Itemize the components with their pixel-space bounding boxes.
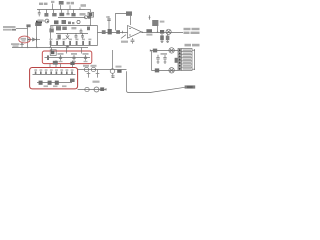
- wire x90 down: [90, 17, 92, 26]
- capacitor C15: [156, 55, 159, 63]
- capacitor Cg1: [87, 72, 91, 78]
- resistor bank R6: [50, 41, 91, 45]
- component cluster M2: [68, 22, 74, 25]
- component C6: [49, 26, 53, 32]
- opamp plus: [129, 28, 131, 30]
- transistor Q5: [91, 67, 95, 71]
- capacitor C9: [75, 33, 78, 39]
- component S1: [153, 49, 157, 53]
- transistor Q4: [84, 67, 88, 71]
- label C13: [71, 53, 77, 55]
- component D6: [87, 27, 90, 31]
- wire drop x162: [160, 34, 164, 41]
- resistor R14: [100, 87, 104, 91]
- wire stub into box1 a: [51, 48, 53, 54]
- wire stub into box1 b: [66, 48, 68, 54]
- label Q6: [116, 66, 122, 68]
- wire opamp output: [141, 32, 183, 34]
- component bank box2 bottom: [39, 81, 59, 85]
- label under C13: [72, 61, 76, 62]
- op-amp U1: [128, 26, 142, 39]
- wire bottom bus: [12, 47, 88, 49]
- wire stub into box1 c: [81, 48, 83, 54]
- label X1 side: [160, 21, 165, 23]
- wire L-run to fuse: [127, 71, 185, 92]
- component link2 dark: [70, 62, 74, 65]
- ground G3: [161, 40, 164, 42]
- label Q4: [83, 65, 89, 67]
- resistor R9b: [116, 30, 120, 34]
- wire vertical to Q6: [112, 50, 114, 69]
- highlight circle TR1 (red): [19, 36, 31, 43]
- junction dot bus3: [49, 47, 50, 48]
- wire box2 bottom rail: [37, 82, 72, 84]
- label top L3: [67, 2, 75, 5]
- resistor bank box2: [35, 71, 73, 74]
- resistor R13: [117, 70, 121, 73]
- labels box2 top: [34, 69, 73, 71]
- component U4: [54, 20, 59, 24]
- resistor R10: [146, 29, 152, 32]
- resistor R5 feedback: [126, 11, 132, 15]
- ground G1: [20, 43, 24, 47]
- wire inverting feedback diag: [121, 35, 126, 39]
- battery B1: [59, 1, 64, 10]
- tick node C: [149, 15, 151, 20]
- ground G4: [166, 40, 169, 42]
- wire feedback right leg: [130, 16, 132, 25]
- wire vertical mid1: [50, 26, 52, 48]
- wire pair1 line: [78, 69, 127, 71]
- wire lower rail mid: [51, 45, 98, 47]
- component C7: [56, 26, 67, 30]
- lamp L2: [169, 68, 174, 73]
- component U5: [62, 20, 67, 24]
- resistor R12: [47, 55, 49, 60]
- label under C12: [59, 61, 63, 62]
- wire vertical x97: [97, 26, 99, 46]
- diode D1: [32, 37, 36, 41]
- component D3: [52, 10, 56, 17]
- label output line1: [184, 28, 200, 34]
- wire CN1 right bus: [192, 49, 195, 70]
- capacitor C1: [38, 10, 41, 17]
- component X1 top: [152, 20, 158, 32]
- label AC INPUT: [3, 26, 16, 31]
- transistor Q7: [85, 87, 89, 91]
- wire mid link rail: [58, 17, 86, 19]
- junction dot TR1: [28, 39, 30, 41]
- fuse F2: [185, 85, 196, 88]
- wire relay bottom: [152, 70, 178, 72]
- tick relay start: [149, 49, 151, 51]
- capacitor C13: [72, 55, 75, 61]
- meter M1: [166, 29, 171, 34]
- component X3 cross: [66, 33, 69, 39]
- component link dark: [53, 61, 58, 65]
- label C12: [58, 53, 64, 55]
- wire drop x168: [166, 34, 170, 40]
- capacitor C14: [84, 55, 87, 61]
- transistor Q1: [43, 19, 49, 23]
- connector CN1 labels: [183, 49, 191, 69]
- junction cross pair2: [112, 76, 115, 78]
- wire link box1-box2 a: [49, 64, 51, 68]
- tick node B: [122, 31, 124, 34]
- connector CN1: [178, 49, 192, 71]
- wire opamp input: [97, 32, 127, 34]
- wire vertical A: [27, 26, 29, 48]
- label Q5: [91, 65, 97, 67]
- label text LM row: [36, 21, 42, 26]
- wire stub up x70: [69, 5, 71, 9]
- highlight box 2 (red, lower): [30, 68, 78, 89]
- transistor Q9: [77, 20, 80, 23]
- component Q3: [85, 16, 92, 19]
- tick end pair2: [105, 88, 107, 91]
- resistor R9: [108, 29, 112, 34]
- component F1: [26, 24, 30, 27]
- component K1: [50, 50, 56, 56]
- component T1 top: [35, 22, 41, 26]
- junction dot out: [157, 31, 159, 33]
- label Q8: [93, 81, 100, 83]
- label top L2: [51, 1, 54, 3]
- labels box2 bottom: [44, 85, 67, 87]
- label TR1: [21, 38, 27, 42]
- capacitor Cg3: [111, 73, 115, 78]
- labels resistor bank: [49, 39, 91, 41]
- wire top rail V+: [37, 9, 85, 11]
- wire link box1-box2 b: [55, 60, 57, 67]
- highlight box 1 (red, upper): [42, 51, 92, 64]
- wire feedback loop over opamp: [116, 14, 127, 31]
- wire link d: [72, 61, 74, 68]
- diode D2: [44, 10, 48, 17]
- label top L1: [39, 3, 48, 5]
- wire relay left vertical: [151, 51, 153, 71]
- wire box2 top rail: [33, 74, 76, 76]
- resistor R8: [102, 30, 106, 34]
- component S2: [155, 68, 159, 72]
- capacitor C10b: [80, 29, 83, 34]
- wire stub up x80: [79, 7, 81, 9]
- label under TR1: [11, 43, 20, 47]
- label mid row: [71, 27, 76, 29]
- wire box1 rail: [45, 57, 91, 59]
- lamp L1: [169, 48, 174, 53]
- capacitor C11 under opamp: [131, 38, 135, 44]
- capacitor C16: [163, 55, 166, 63]
- component D5: [71, 10, 75, 17]
- transistor Q6: [110, 69, 115, 74]
- label C11: [121, 41, 128, 43]
- wire stub up x52.5: [52, 4, 54, 10]
- junction dot apex: [142, 32, 143, 33]
- component D4: [59, 10, 64, 17]
- capacitor Cg2: [96, 70, 100, 78]
- wire mid h-line: [56, 33, 88, 35]
- wire link box1-box2 c: [60, 64, 62, 68]
- label C14: [83, 53, 89, 55]
- opamp minus: [129, 34, 131, 36]
- label R10: [146, 34, 152, 36]
- label T1: [38, 19, 44, 21]
- label right small: [185, 44, 200, 47]
- transistor Q8: [94, 87, 99, 92]
- capacitor C12: [59, 55, 62, 61]
- wire vertical B: [36, 24, 38, 48]
- label top L4: [81, 4, 87, 7]
- resistor R11: [160, 30, 164, 34]
- label C16: [161, 53, 168, 55]
- wire pair2 line: [78, 89, 107, 91]
- component box2 right: [70, 79, 75, 82]
- label NC: [80, 13, 86, 16]
- junction dot bus2: [36, 47, 37, 48]
- wire relay top: [150, 50, 178, 52]
- connector CN1 pins: [179, 49, 181, 70]
- capacitor C10: [81, 33, 84, 39]
- label under C14: [84, 61, 88, 62]
- junction dot bus1: [27, 47, 28, 48]
- wire AC input lead: [16, 28, 28, 30]
- ground G2: [66, 46, 69, 48]
- component X2: [57, 35, 60, 40]
- component C2: [66, 10, 69, 15]
- regulator U3: [85, 10, 94, 18]
- capacitor C5 polarized: [106, 16, 111, 32]
- wire TR1 to diode: [29, 39, 40, 41]
- diode D7: [175, 58, 178, 63]
- wire top rail mid: [51, 25, 98, 27]
